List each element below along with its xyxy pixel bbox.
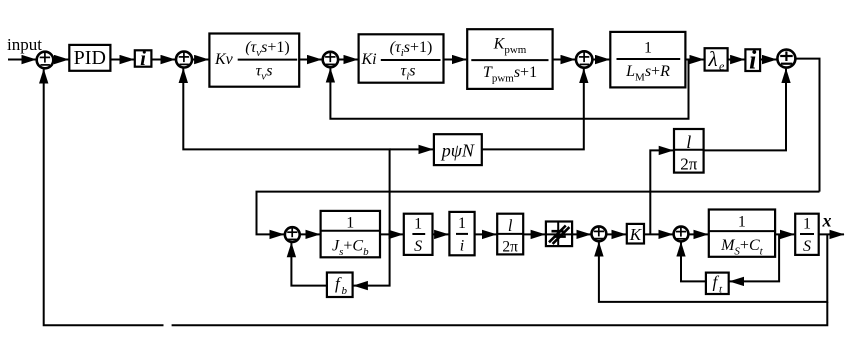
svg-text:x: x xyxy=(822,211,832,231)
svg-text:Ki: Ki xyxy=(361,51,377,68)
svg-text:1: 1 xyxy=(346,215,354,232)
svg-text:τis: τis xyxy=(400,63,415,83)
svg-text:Tpwms+1: Tpwms+1 xyxy=(483,64,537,85)
svg-text:1: 1 xyxy=(414,216,422,233)
svg-text:b: b xyxy=(342,285,348,297)
svg-text:τvs: τvs xyxy=(256,63,273,83)
svg-text:input: input xyxy=(7,35,42,54)
svg-text:1: 1 xyxy=(644,40,652,57)
svg-text:pψN: pψN xyxy=(440,141,475,161)
svg-text:S: S xyxy=(803,238,811,255)
svg-text:i: i xyxy=(749,46,757,75)
svg-text:S: S xyxy=(414,238,422,255)
svg-text:1: 1 xyxy=(458,215,466,232)
svg-text:K: K xyxy=(629,225,643,244)
svg-text:i: i xyxy=(140,46,146,70)
svg-text:PID: PID xyxy=(74,47,106,69)
svg-text:Kv: Kv xyxy=(214,51,234,68)
svg-text:LMs+R: LMs+R xyxy=(625,63,670,84)
svg-text:1: 1 xyxy=(803,216,811,233)
svg-text:2π: 2π xyxy=(502,239,518,256)
svg-text:Kpwm: Kpwm xyxy=(493,36,527,57)
svg-text:(τis+1): (τis+1) xyxy=(390,39,433,59)
svg-text:2π: 2π xyxy=(680,155,698,174)
svg-text:i: i xyxy=(460,238,464,255)
svg-text:MS+Ct: MS+Ct xyxy=(720,237,764,258)
svg-text:λ: λ xyxy=(708,47,718,71)
svg-text:e: e xyxy=(719,59,725,73)
svg-text:(τvs+1): (τvs+1) xyxy=(245,39,290,59)
svg-text:Js+Cb: Js+Cb xyxy=(332,238,369,259)
svg-text:l: l xyxy=(508,216,513,235)
svg-text:1: 1 xyxy=(738,214,746,231)
